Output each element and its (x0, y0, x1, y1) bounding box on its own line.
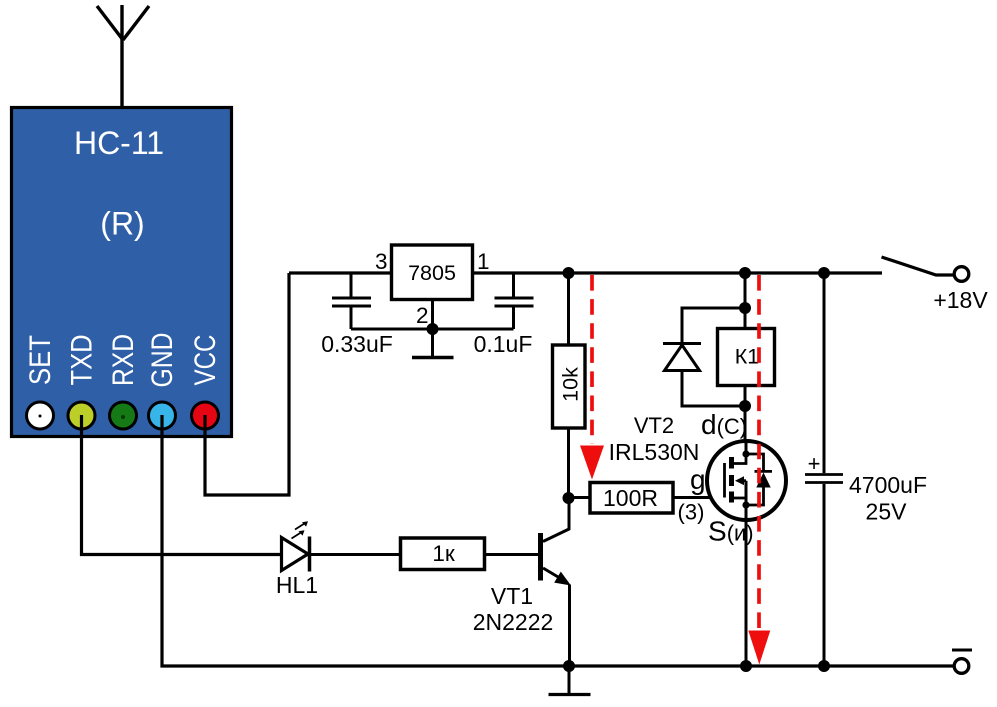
emitter arrow VT1 (554, 572, 571, 586)
svg-text:S(и): S(и) (708, 516, 754, 547)
svg-text:VCC: VCC (189, 335, 222, 386)
terminal minus (954, 659, 969, 674)
svg-text:0.1uF: 0.1uF (474, 331, 533, 357)
svg-text:3: 3 (375, 249, 388, 274)
node rail 4700uF (818, 267, 830, 279)
base wire (485, 553, 539, 556)
emitter (543, 568, 564, 581)
svg-text:(R): (R) (100, 206, 144, 242)
svg-text:GND: GND (146, 333, 179, 388)
svg-text:1к: 1к (432, 541, 455, 566)
capacitor 0.33uF (332, 273, 371, 329)
svg-text:+18V: +18V (933, 287, 988, 313)
top channel bar (729, 457, 734, 469)
gate bar (723, 463, 726, 498)
wire gate (672, 496, 725, 499)
wire 10k to collector node (567, 427, 570, 498)
svg-text:0.33uF: 0.33uF (321, 331, 393, 357)
svg-text:RXD: RXD (107, 334, 140, 386)
drain lead (745, 441, 748, 454)
wire K1 to drain (744, 386, 747, 442)
svg-text:VT2: VT2 (634, 413, 674, 438)
resistor 1k (401, 538, 485, 570)
middle channel bar (729, 475, 734, 486)
svg-text:+: + (808, 451, 821, 476)
wire GND to bottom rail (162, 415, 954, 666)
body diode wires (746, 454, 764, 471)
wire capacitor link (351, 328, 514, 331)
wire LED to 1k (310, 553, 401, 556)
node emitter rail (563, 660, 575, 672)
svg-text:1: 1 (477, 249, 490, 274)
pin VCC (red) (192, 402, 219, 429)
svg-text:25V: 25V (866, 499, 908, 525)
wire TXD to LED (82, 415, 282, 555)
capacitor 4700uF (823, 273, 826, 473)
transistor VT1 (485, 498, 570, 666)
source lead (745, 481, 748, 666)
node rail K1 (739, 267, 751, 279)
regulator 7805 (392, 245, 473, 300)
antenna (97, 5, 149, 107)
svg-text:HL1: HL1 (276, 572, 318, 598)
node pin2 junction (427, 323, 439, 335)
svg-text:g: g (690, 464, 706, 495)
flyback diode (663, 308, 745, 406)
svg-text:VT1: VT1 (491, 583, 533, 609)
svg-text:2: 2 (416, 303, 429, 328)
relay K1 (744, 273, 747, 329)
resistor 100R (569, 496, 591, 499)
current path dashed left (590, 275, 594, 444)
wire top rail left of 7805 (289, 271, 392, 274)
ground at emitter (568, 666, 571, 694)
svg-text:TXD: TXD (66, 335, 99, 386)
node rail 10k (563, 267, 575, 279)
node K1 top (739, 302, 751, 314)
switch +18V (882, 257, 954, 275)
svg-text:SET: SET (24, 335, 57, 385)
collector (543, 498, 569, 542)
node cap rail (818, 660, 830, 672)
svg-text:4700uF: 4700uF (849, 472, 927, 498)
current path dashed right (757, 275, 761, 631)
base bar (538, 533, 543, 581)
capacitor 0.1uF (495, 273, 534, 329)
svg-text:10k: 10k (559, 367, 583, 402)
pin RXD (dark green) (110, 402, 137, 429)
pin SET (white) (27, 402, 54, 429)
body diode triangle (756, 473, 770, 488)
svg-text:К1: К1 (735, 345, 759, 369)
svg-text:7805: 7805 (408, 261, 456, 285)
pin GND (cyan) (149, 402, 176, 429)
node K1 bottom (739, 400, 751, 412)
svg-text:100R: 100R (603, 485, 658, 511)
module HC-11 box (12, 108, 232, 437)
svg-text:IRL530N: IRL530N (609, 439, 700, 465)
svg-text:(3): (3) (678, 500, 705, 525)
mosfet VT2 (707, 441, 786, 520)
bottom channel bar (729, 492, 734, 503)
wire top rail right of 7805 (473, 271, 883, 274)
wire VCC to top rail (205, 273, 289, 495)
LED emission arrows (292, 523, 307, 539)
substrate arrow (735, 476, 744, 485)
ground under 7805 (431, 329, 434, 356)
node drain dot (742, 450, 749, 457)
node source dot (742, 501, 749, 508)
LED cathode bar (308, 537, 312, 572)
pin TXD (yellow-green) (68, 402, 95, 429)
svg-text:d(C): d(C) (701, 409, 747, 440)
svg-text:HC-11: HC-11 (74, 125, 164, 161)
wire 7805 pin 2 (431, 300, 434, 330)
node source rail (740, 660, 752, 672)
LED HL1 (282, 538, 309, 571)
svg-text:2N2222: 2N2222 (473, 609, 554, 635)
node collector (563, 492, 575, 504)
wire rail to 10k (567, 273, 570, 346)
